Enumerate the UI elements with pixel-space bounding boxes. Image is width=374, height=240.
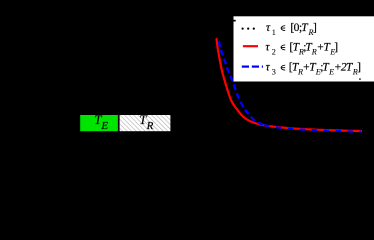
legend row2 text: tau2 in [T_R;T_R+T_E] (265, 41, 338, 56)
svg-text:2: 2 (272, 47, 276, 56)
svg-text:E: E (328, 68, 334, 77)
legend row3 blue dashed sample (242, 65, 249, 67)
legend row3 text: tau3 in [T_R+T_E;T_E+2T_R] (266, 62, 361, 77)
legend row1 text: tau1 in [0;T_R] (266, 22, 317, 37)
svg-text:]: ] (334, 41, 338, 53)
svg-text:3: 3 (272, 68, 276, 77)
svg-text:R: R (146, 120, 154, 132)
legend row2 red line sample (243, 45, 258, 47)
svg-text:]: ] (313, 22, 317, 34)
hatched box T_R (120, 115, 171, 131)
svg-text:E: E (100, 120, 108, 132)
svg-text:]: ] (357, 62, 361, 74)
svg-text:1: 1 (272, 28, 276, 37)
red curve tau2 (217, 39, 362, 131)
svg-text:R: R (311, 47, 317, 56)
green box T_E (80, 115, 118, 131)
black notch on legend bottom edge (359, 78, 361, 79)
blue dashed curve tau3 tail (264, 125, 361, 132)
legend box (234, 16, 374, 81)
blue dashed curve tau3 (219, 41, 264, 125)
legend row1 dotted sample (242, 28, 244, 30)
black notch on legend left edge (234, 20, 236, 22)
